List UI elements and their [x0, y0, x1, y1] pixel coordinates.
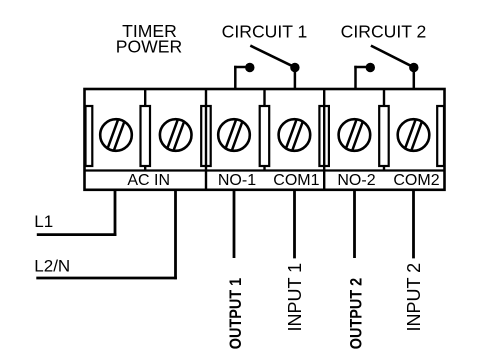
clamp plate AC IN middle: [141, 106, 151, 166]
wire OUTPUT 2: [353, 190, 356, 258]
screw terminal COM1: [279, 119, 311, 151]
svg-text:OUTPUT 1: OUTPUT 1: [227, 278, 245, 350]
switch S1 blade (open): [250, 46, 295, 68]
svg-text:INPUT 1: INPUT 1: [285, 263, 305, 332]
tick clamp NO-2/COM2 top: [383, 89, 385, 106]
switch S1 fixed contact dot: [245, 63, 254, 72]
svg-text:INPUT 2: INPUT 2: [404, 263, 424, 332]
wire L2/N vertical: [174, 190, 177, 279]
switch S2 wire from NO-2 up: [354, 66, 357, 90]
svg-text:AC IN: AC IN: [127, 172, 170, 189]
svg-text:NO-2: NO-2: [337, 172, 375, 189]
screw terminal AC IN L2: [160, 119, 192, 151]
clamp plate section boundary 2: [319, 106, 329, 166]
wire L2/N horizontal: [36, 277, 177, 280]
clamp plate left edge: [86, 106, 93, 166]
switch S2 blade (open): [371, 46, 414, 68]
wire L1 horizontal: [37, 233, 117, 236]
wire OUTPUT 1: [233, 190, 236, 258]
switch S2 wire horizontal to contact: [354, 66, 370, 69]
label TIMER POWER: [116, 21, 182, 57]
label strip divider line: [85, 169, 445, 171]
svg-text:COM2: COM2: [393, 172, 439, 189]
switch S1 wire from pivot down to COM1: [294, 68, 297, 91]
svg-text:COM1: COM1: [273, 172, 319, 189]
terminal block outline: [85, 89, 445, 190]
svg-text:POWER: POWER: [116, 37, 182, 57]
switch S1 wire from NO-1 up: [234, 66, 237, 90]
clamp plate NO-2/COM2 middle: [379, 106, 389, 166]
section divider 2: [323, 89, 325, 190]
screw terminal AC IN L1: [100, 119, 132, 151]
switch S2 fixed contact dot: [366, 63, 375, 72]
svg-text:NO-1: NO-1: [218, 172, 256, 189]
tick clamp NO-2/COM2 bottom: [383, 166, 385, 171]
switch S1 pivot dot: [290, 63, 299, 72]
tick clamp NO-1/COM1 bottom: [263, 166, 265, 171]
clamp plate right edge: [437, 106, 444, 166]
switch S2 wire from pivot down to COM2: [413, 68, 416, 91]
wire L1 vertical: [114, 190, 117, 236]
svg-text:CIRCUIT 2: CIRCUIT 2: [341, 22, 427, 42]
wire INPUT 2: [412, 190, 415, 259]
clamp plate NO-1/COM1 middle: [260, 106, 270, 166]
wire INPUT 1: [293, 190, 296, 259]
svg-text:CIRCUIT 1: CIRCUIT 1: [222, 22, 308, 42]
tick clamp AC IN bottom: [144, 166, 146, 171]
screw terminal NO-2: [339, 119, 371, 151]
tick clamp AC IN top: [144, 89, 146, 106]
clamp plate section boundary 1: [201, 106, 211, 166]
screw terminal NO-1: [218, 119, 250, 151]
screw terminal COM2: [398, 119, 430, 151]
switch S1 wire horizontal to contact: [234, 66, 250, 69]
switch S2 pivot dot: [409, 63, 418, 72]
tick clamp NO-1/COM1 top: [263, 89, 265, 106]
section divider 1: [205, 89, 207, 190]
svg-text:L2/N: L2/N: [34, 257, 70, 276]
svg-text:L1: L1: [34, 212, 53, 231]
svg-text:OUTPUT 2: OUTPUT 2: [347, 278, 365, 350]
